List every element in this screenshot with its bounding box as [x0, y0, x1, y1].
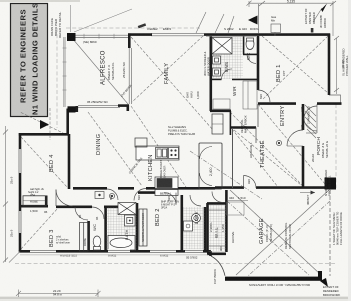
ldry fixtures	[184, 214, 201, 232]
family-alfresco sliding door	[128, 48, 130, 104]
top right dim line	[249, 2, 333, 4]
corridor north wall segments	[73, 187, 107, 190]
bed3 robe east wall + bath walls	[87, 221, 90, 251]
sleeves note	[168, 125, 195, 136]
entry double doors	[304, 106, 317, 119]
bed3 robe	[80, 223, 89, 252]
ens/wir west wall	[210, 36, 213, 111]
theatre east wall	[302, 104, 305, 130]
wir robe shelves	[213, 81, 257, 109]
family window top	[151, 33, 204, 35]
thick walls	[19, 33, 342, 256]
small door-number labels	[78, 94, 304, 220]
ens door from wir	[222, 69, 233, 80]
entry north wall	[317, 102, 342, 105]
ceiling manhole	[95, 192, 104, 199]
theatre east door	[287, 130, 303, 146]
wc door	[92, 207, 104, 219]
tiny note: drain face brick pier	[50, 11, 62, 38]
bed2 walls	[138, 191, 164, 194]
overhang dashed outline	[15, 28, 336, 264]
ldry door	[190, 195, 201, 206]
right wall bed1	[328, 34, 331, 96]
wil tiles	[209, 205, 227, 252]
bottom wall	[19, 250, 211, 253]
scan edge artifacts	[0, 296, 351, 301]
hall door arcs	[107, 189, 118, 200]
left wall bed3 window	[18, 211, 22, 233]
extent of render leader	[313, 8, 322, 22]
garage door bar	[225, 277, 322, 281]
alfresco post	[67, 33, 76, 41]
theatre north wall	[231, 126, 256, 129]
wir south wall	[210, 110, 231, 113]
alfresco-dining sliding door	[78, 105, 120, 107]
garage front wall	[215, 186, 244, 189]
left outer wall	[19, 133, 22, 252]
top wall family west	[128, 33, 152, 36]
hall west wall x230	[229, 111, 231, 135]
window gaps in walls	[18, 36, 256, 253]
garage left lower cut brick arc	[211, 256, 225, 276]
small sub labels	[30, 62, 329, 246]
room labels (rotated)	[49, 50, 321, 247]
pier leader lines	[70, 5, 72, 32]
alfresco corner post	[68, 106, 76, 112]
corner mitre	[9, 252, 20, 263]
alcove nook	[227, 201, 249, 216]
wil shelves	[209, 210, 226, 246]
bed3/bed4 wall	[20, 205, 48, 208]
garage right pier	[325, 178, 337, 190]
ldry tiles	[183, 207, 205, 251]
bed2 robe	[139, 209, 147, 246]
bed2 door	[164, 193, 176, 205]
diagonal roof/ceiling lines	[20, 36, 330, 276]
porch jog	[329, 95, 341, 103]
ldry / wil walls	[204, 207, 207, 252]
wc door	[247, 54, 256, 63]
bed3 door	[75, 207, 88, 220]
ens tiles	[212, 37, 243, 79]
alfresco slab left edge	[64, 37, 66, 107]
wil door	[212, 192, 223, 203]
theatre door	[244, 176, 257, 189]
under-wall face line	[20, 254, 208, 256]
impact arrow near pier	[300, 192, 315, 194]
vent mark above family wall	[138, 23, 146, 28]
bath fixtures	[93, 203, 136, 251]
top wall ens/wc windows thin inner line	[206, 35, 256, 37]
bed1 door	[258, 90, 270, 102]
corridor south wall over bed3/wc/bath	[56, 206, 92, 209]
left vertical dim line	[5, 126, 7, 262]
corridor/theatre inner thin walls	[233, 104, 259, 188]
small mark above wall near porch	[311, 28, 314, 33]
gas meter box	[271, 24, 281, 33]
alfresco beam top	[75, 34, 129, 36]
wc powder toilet	[93, 236, 101, 247]
leader lines top middle	[196, 12, 206, 33]
linen cupboard	[212, 114, 223, 134]
step top-left	[19, 133, 69, 136]
pantry	[199, 143, 222, 189]
dining/family corner	[118, 104, 129, 107]
wc toilet	[246, 39, 254, 50]
door arcs	[56, 54, 317, 220]
engineers note grey box	[11, 3, 48, 117]
scan noise overlay	[0, 0, 1, 1]
ens fixtures	[212, 38, 254, 77]
fridge	[135, 138, 147, 147]
kitchen bench	[136, 146, 179, 196]
bottom wall windows	[30, 249, 56, 253]
bottom main dimension line	[19, 292, 99, 294]
bed1 window dim	[336, 38, 338, 94]
porch hatch	[305, 105, 316, 138]
garage west wall	[225, 190, 228, 203]
bed4 door	[56, 190, 73, 207]
arrows	[40, 120, 49, 129]
bed4 robe	[23, 196, 46, 206]
alfresco edge ticks	[63, 34, 115, 90]
bath tiles	[107, 208, 137, 251]
left wall bed4 window	[18, 149, 22, 173]
garage right dashed boundary	[329, 190, 331, 276]
bed4 east wall	[68, 134, 71, 189]
entry east wall	[316, 104, 318, 133]
bed1 west wall	[257, 36, 260, 90]
smoke detector symbols	[109, 140, 281, 198]
top wall east	[204, 33, 330, 36]
ens/wir divider	[211, 78, 222, 80]
dim texts in wil	[209, 196, 246, 232]
